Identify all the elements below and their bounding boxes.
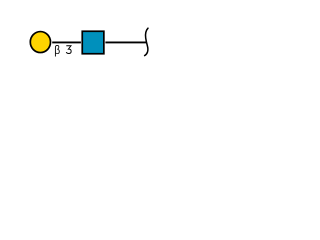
wire GlcNAc to reducing end [105, 41, 146, 43]
monosaccharide Gal (yellow circle) [30, 32, 50, 53]
wire Gal to GlcNAc [52, 41, 81, 43]
monosaccharide GlcNAc (blue square) [82, 31, 104, 54]
svg-text:β: β [54, 43, 60, 57]
reducing-end squiggle [145, 28, 148, 55]
linkage position label 3 [66, 46, 71, 54]
background [0, 0, 186, 82]
